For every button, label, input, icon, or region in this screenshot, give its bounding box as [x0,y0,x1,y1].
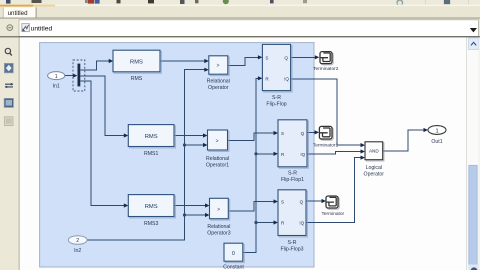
wire In1 to Demux [65,75,74,77]
svg-text:RMS: RMS [145,204,158,210]
S-R flip-flop [262,44,290,107]
node reset-ff1 [254,152,257,155]
svg-text:In1: In1 [53,83,60,89]
svg-text:S-R: S-R [272,95,281,101]
wire demux out2 to RMS1 [81,76,125,136]
block RMS3 [128,195,174,227]
wire branch reset to R of Flip-Flop1 [256,153,274,155]
outport Out1 [428,126,446,146]
wire AND output to Out1 [383,130,424,151]
breadcrumb bar [0,19,480,38]
svg-text:Terminator1: Terminator1 [313,142,339,148]
wire !Q1 to AND input2 [307,152,361,154]
bottom scroll button (cut off) [469,265,479,270]
svg-text:RMS3: RMS3 [144,221,159,227]
S-R flip-flop1 [278,120,307,183]
demux [73,60,85,91]
inport In1 [48,72,65,90]
top toolbar strip (cut off) [0,0,480,7]
arrowheads [73,55,428,224]
screen icon [4,98,13,107]
dropdown arrow [470,28,477,32]
svg-text:Constant: Constant [223,264,244,270]
svg-text:RMS: RMS [130,59,143,65]
svg-text:RMS: RMS [145,134,158,140]
svg-text:Flip-Flop: Flip-Flop [266,102,286,108]
wire branch threshold to Relational Operator3 [185,214,206,216]
svg-text:S: S [265,55,268,60]
svg-text:0: 0 [232,251,235,257]
junction dots [183,143,258,224]
logical operator AND [364,142,385,178]
svg-text:untitled: untitled [8,10,29,17]
block RMS1 [128,125,174,157]
terminator T1 [313,126,339,148]
svg-text:S: S [281,131,284,136]
zoom icon [5,48,10,53]
wire Relational Operator to S input [228,57,258,65]
svg-text:>: > [216,63,219,69]
width arrows icon [5,84,13,87]
svg-text:Q: Q [300,200,304,205]
selection region (light blue) [40,43,314,267]
wire demux out1 to RMS [81,61,110,70]
address field [19,20,478,37]
wire RMS to Relational Operator [160,60,205,62]
line under tab bar [0,17,480,20]
svg-text:Terminator2: Terminator2 [313,66,339,72]
inport In2 [68,236,87,254]
svg-text:S-R: S-R [288,170,297,176]
wire Relational Operator1 to S input [228,133,275,141]
right scrollbar [466,37,480,270]
collapse circle icon [7,25,13,31]
svg-text:Flip-Flop1: Flip-Flop1 [281,177,304,183]
dark separator line [0,36,480,37]
svg-text:Q: Q [284,55,288,60]
svg-text:>: > [216,138,219,144]
svg-text:S: S [281,200,284,205]
svg-text:Operator1: Operator1 [206,162,229,168]
relational operator U1 [207,56,230,91]
svg-text:Operator: Operator [208,85,229,91]
wire Q to Terminator2 [291,56,316,58]
selection marquee (dashed) [73,60,85,91]
wire Relational Operator3 to S input [228,202,274,211]
svg-text:Flip-Flop3: Flip-Flop3 [280,247,303,253]
wire !Q to AND input1 [291,79,361,145]
svg-text:RMS1: RMS1 [144,151,159,157]
block RMS [113,50,160,82]
relational operator U3 [207,198,230,236]
model icon [22,24,30,32]
svg-text:!Q: !Q [284,76,289,81]
wire !Q3 to AND input3 [306,158,361,223]
svg-text:!Q: !Q [300,152,305,157]
svg-text:!Q: !Q [299,221,304,226]
terminator T0 [321,196,344,217]
wire Q1 to Terminator1 [307,131,315,133]
fit-to-view icon [4,63,13,72]
S-R flip-flop3 [278,190,306,253]
svg-text:1: 1 [435,128,438,134]
relational operator U2 [206,130,229,168]
wire Constant reset trunk [243,78,258,252]
svg-text:Terminator: Terminator [321,211,344,217]
active tab "untitled" [3,7,36,18]
svg-text:1: 1 [55,74,58,80]
wire branch threshold to Relational Operator1 [185,144,204,146]
svg-text:Out1: Out1 [431,139,442,145]
wire RMS3 to Relational Operator3 [174,205,206,207]
node reset-ff3 [254,221,257,224]
disabled icon [4,117,13,126]
svg-text:Logical: Logical [366,165,382,171]
wire In2 threshold trunk [87,70,204,240]
svg-text:Relational: Relational [207,224,230,230]
svg-text:Operator3: Operator3 [207,231,230,237]
svg-text:RMS: RMS [131,76,143,82]
svg-text:AND: AND [369,149,379,154]
terminator T2 [313,52,339,72]
left tool strip [0,37,20,270]
orange highlight stripe on active tab [0,5,33,7]
node threshold-relop1 [183,143,186,146]
svg-text:In2: In2 [74,248,81,254]
svg-text:untitled: untitled [31,25,53,32]
wire Q3 to Terminator [306,200,322,202]
svg-text:>: > [217,207,220,213]
wire branch reset to R of Flip-Flop3 [256,222,274,224]
svg-text:Relational: Relational [207,78,230,84]
svg-text:2: 2 [76,238,79,244]
node threshold-relop3 [183,213,186,216]
svg-text:Operator: Operator [364,172,385,178]
wire RMS1 to Relational Operator1 [174,135,204,137]
svg-text:S-R: S-R [288,240,297,246]
tab bar [0,5,480,19]
svg-text:Q: Q [301,131,305,136]
svg-text:Relational: Relational [206,156,229,162]
constant block [223,243,244,270]
wire demux out3 to RMS3 [81,81,125,206]
block drop shadows [114,46,308,263]
